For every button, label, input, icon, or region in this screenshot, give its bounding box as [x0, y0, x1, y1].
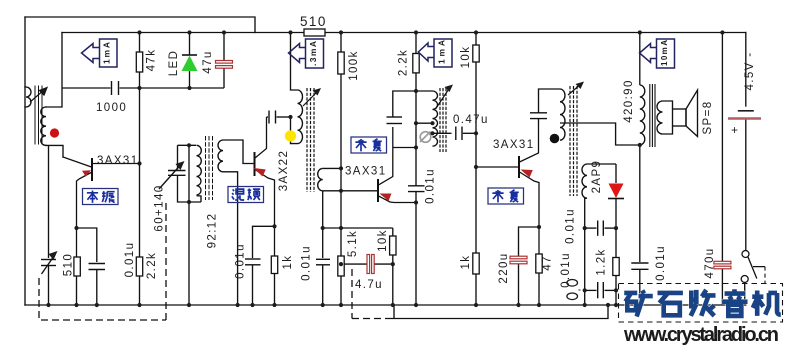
wire tank top: [178, 136, 255, 305]
output transformer T5 420:90: [631, 33, 662, 306]
emitter arrow Q3 (red): [380, 194, 392, 202]
wire T2 secondary top to mixer base: [223, 140, 254, 164]
regen coil L2: [416, 88, 452, 152]
svg-text:3AX31: 3AX31: [345, 166, 387, 178]
label 来复 box 2: [488, 188, 524, 204]
antenna transformer T1 core: [35, 86, 42, 144]
wire bottom rail: [25, 304, 746, 306]
variable capacitor C1 510: [48, 145, 50, 258]
svg-text:1mA: 1mA: [437, 40, 447, 64]
capacitor 220u (red): [519, 227, 540, 305]
capacitor 0.47u: [456, 127, 476, 141]
antenna transformer T1 secondary: [41, 107, 46, 145]
emitter arrow Q2 (red): [254, 168, 266, 177]
svg-text:1mA: 1mA: [102, 42, 112, 64]
svg-text:420:90: 420:90: [623, 79, 635, 123]
svg-text:1000: 1000: [96, 102, 127, 114]
svg-text:0.01u: 0.01u: [655, 245, 667, 281]
junction dots left: [46, 30, 239, 307]
svg-text:92:12: 92:12: [207, 213, 219, 249]
label 本振 box: [83, 189, 119, 205]
svg-text:5.1k: 5.1k: [347, 230, 359, 257]
meter M4 10mA: [640, 39, 675, 68]
resistor R 1.2k: [613, 258, 619, 276]
antenna phase dot (red): [50, 128, 59, 137]
diode D1 2AP9 (red): [608, 164, 624, 305]
transistor Q2 3AX22 mixer: [255, 117, 275, 256]
variable capacitor C 60+140: [159, 145, 201, 202]
watermark dashed border: [619, 284, 783, 323]
svg-text:100k: 100k: [348, 50, 360, 81]
T2 secondary: [218, 140, 223, 172]
capacitor collector Q4: [530, 89, 560, 124]
earphone jack terminals: [567, 280, 583, 300]
resistor R2 2.2k: [136, 257, 142, 276]
resistor R 100k: [340, 33, 342, 53]
watermark 矿石收音机: [624, 289, 781, 316]
svg-text:10k: 10k: [377, 229, 389, 252]
svg-text:0.01u: 0.01u: [560, 252, 572, 288]
dashed pot linkage: [352, 269, 391, 319]
svg-text:1k: 1k: [460, 255, 472, 270]
svg-text:3AX22: 3AX22: [278, 150, 290, 192]
svg-text:2.2k: 2.2k: [398, 49, 410, 76]
wire right border battery branch: [745, 33, 747, 107]
svg-text:2.2k: 2.2k: [146, 252, 158, 279]
svg-text:220u: 220u: [498, 252, 510, 283]
T4 core: [570, 86, 577, 196]
L2 adjust slug (gray): [420, 132, 431, 143]
svg-text:.3mA: .3mA: [308, 41, 318, 66]
speaker SP=8: [663, 90, 698, 137]
mixer tuned indicator (yellow): [285, 130, 296, 141]
resistor R 2.2k stage2: [415, 33, 417, 54]
wire return line: [391, 305, 608, 319]
svg-text:10k: 10k: [460, 46, 472, 69]
IF transformer T4: [560, 86, 640, 305]
wire left border: [24, 17, 26, 305]
battery 4.5V: [738, 110, 754, 112]
capacitor 0.01u osc: [89, 263, 106, 265]
svg-text:47: 47: [542, 255, 554, 271]
L2 core: [440, 88, 446, 152]
meter M3 1mA: [418, 39, 452, 67]
label 来复 box 1: [351, 137, 387, 153]
svg-text:4.7u: 4.7u: [355, 279, 383, 291]
svg-text:3AX31: 3AX31: [493, 139, 535, 151]
T4 tuning arrow: [568, 84, 581, 95]
capacitor 0.01u output: [631, 262, 648, 264]
svg-text:4.5V -: 4.5V -: [744, 51, 756, 90]
antenna tuning arrow: [30, 88, 47, 103]
resistor R1 47k: [139, 33, 141, 53]
junction dots mid: [250, 30, 478, 307]
capacitor 0.01u det2: [585, 282, 616, 298]
resistor R 1k mixer emitter: [271, 256, 277, 274]
antenna transformer T1 primary: [25, 87, 31, 107]
resistor R 510 on rail: [304, 29, 325, 36]
capacitor 0.01u mixer: [245, 226, 275, 305]
svg-text:+: +: [731, 123, 739, 137]
T5 secondary: [657, 101, 662, 134]
svg-text:SP=8: SP=8: [702, 100, 714, 134]
label 混频 box: [228, 187, 264, 203]
svg-text:0.01u: 0.01u: [565, 208, 577, 244]
emitter arrow Q4 (red): [521, 170, 533, 178]
capacitor 470u (red): [721, 33, 723, 306]
IF transformer T3: [291, 33, 379, 259]
L2 tuning arrow: [436, 88, 450, 109]
svg-text:2AP9: 2AP9: [591, 160, 603, 194]
svg-text:0.01u: 0.01u: [301, 245, 313, 281]
wire secondary top to rail: [46, 33, 62, 108]
svg-text:LED: LED: [168, 50, 180, 77]
svg-text:47u: 47u: [202, 50, 214, 73]
meter M1 1mA: [82, 39, 118, 67]
svg-text:0.47u: 0.47u: [453, 114, 489, 126]
wire T2 secondary bottom to ground: [223, 172, 238, 305]
wire top outer border: [25, 17, 255, 33]
capacitor C2 47u electrolytic (red): [223, 33, 225, 89]
RC network 5.1k 10k 4.7u: [316, 228, 393, 305]
capacitor regen feedback: [387, 91, 433, 148]
svg-text:3AX31: 3AX31: [97, 155, 139, 167]
resistor R 10k pot: [390, 236, 396, 255]
switch S1: [741, 251, 765, 285]
svg-text:0.01u: 0.01u: [235, 243, 247, 279]
svg-text:510: 510: [63, 253, 75, 276]
wire top rail: [62, 32, 304, 34]
svg-text:www.crystalradio.cn: www.crystalradio.cn: [623, 324, 779, 346]
svg-text:1.2k: 1.2k: [596, 248, 608, 275]
wire base stage3: [476, 166, 519, 168]
capacitor 0.01u reflex emitter: [408, 91, 425, 305]
T5 core: [650, 84, 655, 147]
wire secondary bottom to base: [46, 145, 63, 157]
capacitor mixer collector: [267, 111, 291, 124]
T4 secondary: [582, 164, 587, 198]
T4 phase dot (black): [550, 134, 560, 144]
black value labels horizontal: [96, 14, 739, 291]
T3 tuning arrow: [303, 91, 318, 106]
svg-text:0.01u: 0.01u: [425, 168, 437, 204]
svg-text:47k: 47k: [146, 49, 158, 72]
meter M2 .3mA: [289, 39, 324, 68]
capacitor 1000: [62, 81, 224, 95]
transistor Q3 3AX31 reflex: [378, 127, 416, 203]
emitter arrow Q1 (red): [82, 170, 91, 176]
resistor R 1k output base: [473, 253, 479, 274]
transistor Q4 3AX31 output: [519, 124, 539, 254]
T3 core: [307, 88, 314, 192]
svg-text:60+140: 60+140: [154, 184, 166, 231]
capacitor 4.7u (red): [367, 255, 374, 274]
wire emitter node to 0.01u: [41, 145, 105, 305]
junction dots right: [516, 30, 724, 307]
LED indicator: [182, 33, 197, 89]
wire tank ground return: [188, 145, 190, 305]
T3 secondary: [318, 168, 323, 190]
svg-text:10mA: 10mA: [660, 40, 669, 66]
resistor R 10k bias: [475, 33, 477, 46]
transistor Q1 3AX31 oscillator: [77, 158, 140, 257]
svg-text:470u: 470u: [704, 247, 716, 278]
resistor R 47 emitter: [536, 254, 542, 273]
oscillator transformer T2 92:12 primary: [197, 145, 202, 176]
dashed gang linkage: [39, 203, 166, 320]
svg-text:0.01u: 0.01u: [124, 242, 136, 278]
T4 primary bottom out: [560, 123, 640, 145]
svg-text:1k: 1k: [282, 255, 294, 270]
resistor R 5.1k: [338, 256, 344, 276]
capacitor 0.01u det1: [585, 221, 616, 236]
svg-text:510: 510: [300, 14, 327, 29]
black value labels vertical: [63, 46, 757, 288]
resistor R 510 emitter: [74, 257, 80, 276]
T2 core: [206, 136, 213, 200]
